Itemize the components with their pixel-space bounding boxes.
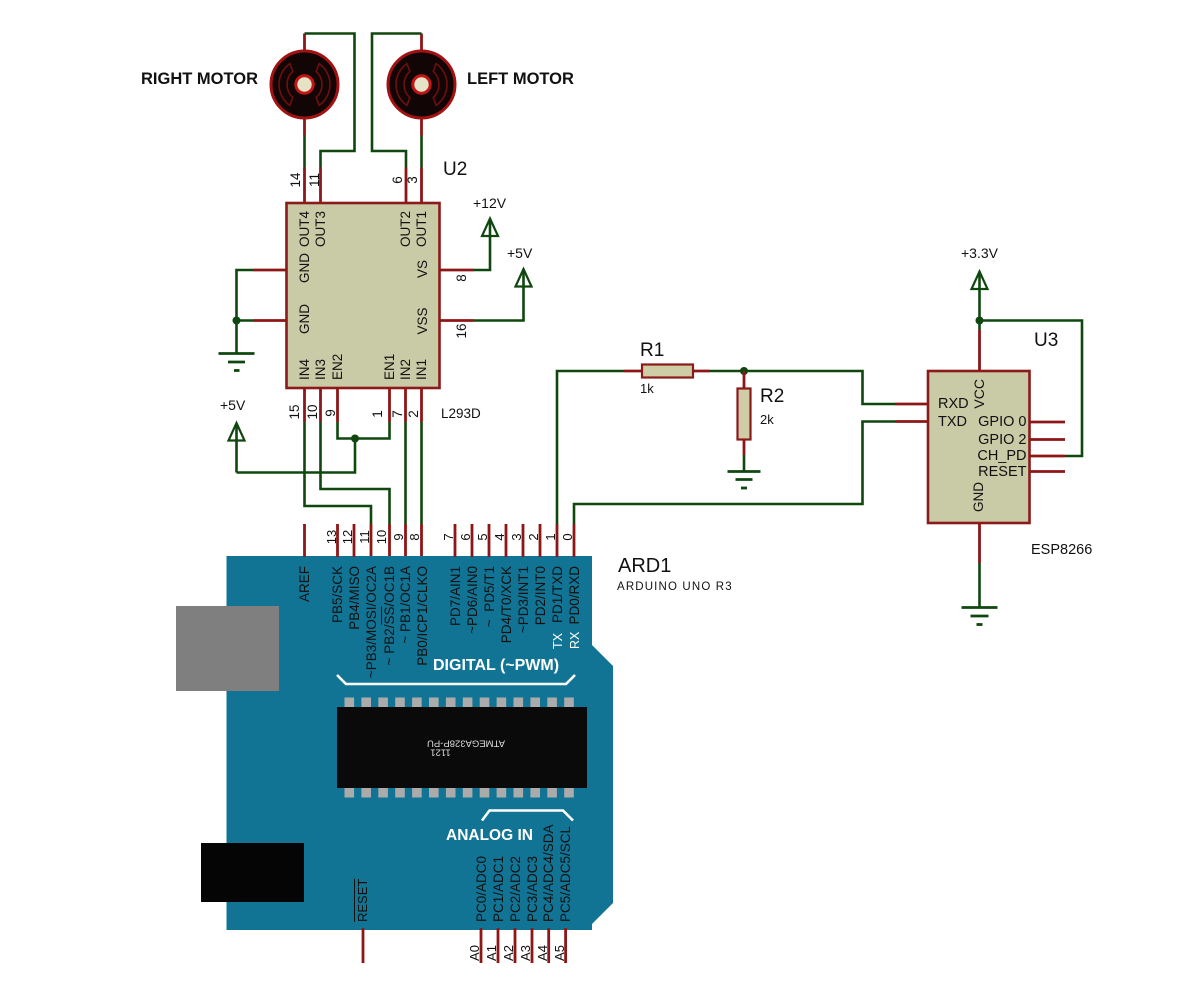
ARD1 pin label PD4/T0/XCK bbox=[500, 566, 514, 696]
refdes R2 bbox=[760, 387, 784, 406]
pin number A4 bbox=[536, 933, 549, 973]
U2 pin label EN2 bbox=[331, 354, 345, 380]
ARD1 pin label ~PD6/AIN0 bbox=[466, 566, 480, 696]
Arduino top pin stubs AREF 13 12 7..0 bbox=[305, 524, 541, 557]
ARD1 pin label ~PB2/SS/OC1B bbox=[383, 566, 397, 696]
U3 pin label VCC bbox=[972, 379, 986, 439]
pin number 9 bbox=[324, 393, 338, 433]
pin number 1 bbox=[371, 394, 385, 434]
U3 GND pin and wire to ground bbox=[978, 523, 981, 607]
refdes U3 bbox=[1034, 331, 1058, 350]
U3 pin label GPIO 2 bbox=[937, 433, 1027, 448]
IC text ATMEGA328P-PU bbox=[420, 738, 512, 748]
ARD1 pin label RESET bbox=[356, 879, 369, 922]
ground G1 bbox=[219, 354, 255, 371]
U2 pin label VS bbox=[416, 239, 430, 299]
pin number A5 bbox=[553, 933, 566, 973]
pin number 12 bbox=[341, 517, 354, 557]
U2 pin label OUT3 bbox=[314, 211, 328, 291]
ARD1 pin label PC0/ADC0 bbox=[475, 856, 489, 922]
pin number 5 ard bbox=[476, 517, 489, 557]
wire M2 bottom to U2 pin 3 bbox=[420, 119, 423, 203]
ARD1 pin label PD0/RXD bbox=[568, 566, 582, 696]
ground G3 bbox=[962, 608, 998, 625]
pin number 10 bbox=[306, 392, 320, 432]
wire M1 top to U2 pin 11 bbox=[305, 34, 355, 204]
IC U2 L293D body bbox=[287, 203, 440, 388]
junction dot +3.3V node bbox=[976, 317, 984, 325]
net label +3.3V bbox=[961, 246, 998, 260]
wire M1 bottom to U2 pin 14 bbox=[303, 119, 306, 203]
wire U2 IN1 to Arduino pin 8 bbox=[420, 422, 423, 557]
U2 pin label OUT4 bbox=[298, 211, 312, 291]
net label +5V left bbox=[220, 398, 245, 412]
resistor R2 2k bbox=[738, 371, 751, 455]
pin number 2 bbox=[407, 394, 421, 434]
pin number 6 ard bbox=[459, 517, 472, 557]
wire +3.3V node to U3 CH_PD bbox=[980, 321, 1083, 457]
wire U3 TXD to Arduino RX pin 0 bbox=[574, 422, 928, 558]
wire U2 IN2 to Arduino pin 9 bbox=[404, 422, 407, 557]
U2 bottom pin stubs 15 10 9 1 7 2 bbox=[305, 388, 422, 422]
power +12V arrow A2 bbox=[482, 219, 498, 238]
IC U3 ESP8266 body bbox=[928, 371, 1030, 523]
header DIGITAL (~PWM) bbox=[433, 658, 559, 674]
ATMEGA328P IC with pads bbox=[337, 698, 587, 798]
header ANALOG IN bbox=[446, 828, 533, 844]
pin number 8 ard bbox=[408, 517, 421, 557]
motor M1 RIGHT MOTOR bbox=[271, 51, 338, 118]
U2 pin label IN2 bbox=[399, 359, 413, 380]
U2 pin label GND top bbox=[298, 238, 312, 298]
label TX bbox=[552, 633, 565, 649]
label LEFT MOTOR bbox=[467, 71, 574, 88]
pin number 14 bbox=[289, 160, 303, 200]
wire node to U3 RXD bbox=[744, 371, 928, 404]
U2 pin label EN1 bbox=[383, 354, 397, 380]
resistor R1 1k bbox=[642, 365, 710, 378]
power jack bbox=[201, 843, 304, 902]
ARD1 pin label PB0/ICP1/CLKO bbox=[416, 566, 430, 696]
pin number 3 bbox=[406, 160, 420, 200]
ARD1 pin label PD1/TXD bbox=[551, 566, 565, 696]
pin number 11 bbox=[308, 160, 322, 200]
pin number 8 bbox=[455, 258, 469, 298]
ARD1 pin label PB4/MISO bbox=[348, 566, 362, 696]
ARD1 pin label PD7/AIN1 bbox=[449, 566, 463, 696]
label RX bbox=[569, 632, 582, 649]
ARD1 pin label PC5/ADC5/SCL bbox=[559, 826, 573, 922]
pin number 3 ard bbox=[510, 517, 523, 557]
pin number A0 bbox=[468, 933, 481, 973]
wire R2 to ground bbox=[743, 455, 746, 471]
U2 pin label IN3 bbox=[314, 359, 328, 380]
pin number A1 bbox=[485, 933, 498, 973]
ARD1 pin label AREF bbox=[298, 566, 312, 696]
ARD1 pin label PC1/ADC1 bbox=[492, 856, 506, 922]
pin number 4 ard bbox=[493, 517, 506, 557]
ARD1 pin label PB5/SCK bbox=[331, 566, 345, 696]
U2 pin 8 VS stub and wire to +12V bbox=[440, 237, 491, 270]
U3 right pin stubs GPIO 0 GPIO 2 RESET bbox=[1030, 422, 1066, 472]
wire U2 IN3 to Arduino pin 10 bbox=[321, 422, 390, 557]
power +5V arrow A1 (EN rail) bbox=[229, 423, 245, 473]
U2 left GND pins and wires to ground bbox=[237, 270, 287, 353]
Arduino bottom pin stubs RESET A0-A5 bbox=[363, 928, 566, 963]
USB connector bbox=[176, 606, 279, 691]
pin number A3 bbox=[519, 933, 532, 973]
ARD1 pin label ~PB3/MOSI/OC2A bbox=[365, 566, 379, 696]
label RIGHT MOTOR bbox=[141, 71, 258, 88]
value ARDUINO UNO R3 bbox=[617, 582, 733, 594]
U2 pin label OUT2 bbox=[399, 211, 413, 291]
value 2k bbox=[760, 413, 774, 426]
ARD1 pin label ~PB1/OC1A bbox=[399, 566, 413, 696]
pin number 11 ard bbox=[358, 517, 371, 557]
pin number 13 bbox=[325, 517, 338, 557]
ground G2 bbox=[728, 472, 761, 489]
U3 pin label RESET bbox=[937, 465, 1027, 480]
pin number 0 ard bbox=[561, 517, 574, 557]
U3 pin label TXD bbox=[938, 415, 967, 430]
U3 pin label RXD bbox=[938, 397, 969, 412]
junction dot divider node bbox=[740, 367, 748, 375]
wire R1 to divider node bbox=[710, 370, 745, 373]
pin number 9 ard bbox=[392, 517, 405, 557]
junction dot U2 GND node bbox=[233, 317, 241, 325]
wire M2 top to U2 pin 6 bbox=[372, 34, 422, 204]
pin number A2 bbox=[502, 933, 515, 973]
U2 pin label OUT1 bbox=[415, 211, 429, 291]
brace ANALOG header bbox=[482, 811, 573, 821]
pin number 6 bbox=[391, 160, 405, 200]
value 1k bbox=[640, 382, 654, 395]
net label +12V bbox=[473, 196, 506, 210]
ARD1 pin label PC2/ADC2 bbox=[509, 856, 523, 922]
value L293D bbox=[441, 407, 481, 421]
ARD1 pin label PD5/T1 bbox=[483, 566, 497, 696]
U2 pin label IN4 bbox=[298, 359, 312, 380]
wire Arduino TX pin 1 to R1 bbox=[557, 371, 642, 557]
U3 pin label GPIO 0 bbox=[937, 415, 1027, 430]
U2 pin 16 VSS stub and wire to +5V bbox=[440, 287, 524, 321]
pin number 7 bbox=[391, 394, 405, 434]
refdes U2 bbox=[443, 160, 467, 179]
ARD1 pin label PC4/ADC4/SDA bbox=[542, 824, 556, 922]
U2 pin label GND bottom bbox=[298, 289, 312, 349]
Arduino board ARD1 outline bbox=[227, 556, 614, 930]
ARD1 pin label ~PD3/INT1 bbox=[517, 566, 531, 696]
junction dot EN node bbox=[351, 435, 359, 443]
ARD1 pin label PD2/INT0 bbox=[534, 566, 548, 696]
IC text 1121 bbox=[420, 747, 461, 757]
U3 VCC pin and +3.3V arrow bbox=[972, 272, 988, 372]
motor M2 LEFT MOTOR bbox=[388, 51, 455, 118]
U2 pin label VSS bbox=[416, 291, 430, 351]
U3 pin label GND bbox=[972, 482, 986, 512]
ARD1 pin label PC3/ADC3 bbox=[526, 856, 540, 922]
wire U2 IN4 to Arduino pin 11 bbox=[305, 422, 372, 557]
U2 pin label IN1 bbox=[415, 359, 429, 380]
power +5V arrow A3 bbox=[516, 269, 532, 287]
pin number 16 bbox=[455, 311, 469, 351]
refdes R1 bbox=[640, 341, 664, 360]
net label +5V right bbox=[507, 246, 532, 260]
value ESP8266 bbox=[1031, 543, 1092, 558]
pin number 1 ard bbox=[544, 517, 557, 557]
pin number 15 bbox=[288, 392, 302, 432]
pin number 10 ard bbox=[375, 517, 388, 557]
wire EN2-EN1 tie to +5V rail bbox=[237, 422, 390, 473]
pin number 2 ard bbox=[527, 517, 540, 557]
brace DIGITAL header bbox=[337, 675, 575, 684]
pin number 7 ard bbox=[442, 517, 455, 557]
refdes ARD1 bbox=[618, 556, 671, 576]
U3 pin label CH_PD bbox=[937, 449, 1027, 464]
